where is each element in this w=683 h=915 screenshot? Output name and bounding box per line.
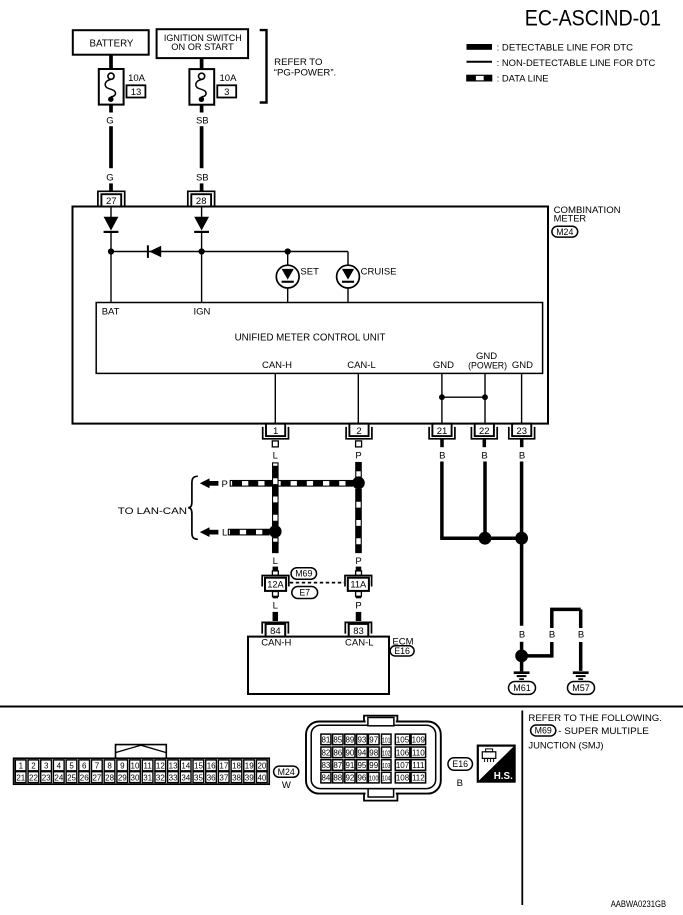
svg-text:17: 17 <box>219 762 228 771</box>
svg-text:REFER TO THE FOLLOWING.: REFER TO THE FOLLOWING. <box>528 713 662 724</box>
svg-text:9: 9 <box>120 762 125 771</box>
connector face M24 40-pin grid <box>14 745 270 785</box>
svg-text:16: 16 <box>207 762 216 771</box>
svg-text:84: 84 <box>270 626 281 637</box>
svg-text:M61: M61 <box>513 683 531 693</box>
wire B down to ground M61 <box>519 538 525 650</box>
TO LAN-CAN brace and label <box>118 476 198 539</box>
svg-text:CAN-L: CAN-L <box>345 637 374 648</box>
svg-text:89: 89 <box>345 736 354 745</box>
svg-text:12A: 12A <box>267 580 284 590</box>
svg-text:85: 85 <box>333 736 342 745</box>
wire GND POWER inside meter <box>484 374 486 424</box>
ECM label E16 <box>390 637 414 656</box>
svg-text:33: 33 <box>169 773 178 782</box>
separator line <box>0 706 683 708</box>
svg-text:82: 82 <box>321 748 330 757</box>
svg-text:M24: M24 <box>278 767 295 777</box>
svg-text:(POWER): (POWER) <box>468 361 507 372</box>
svg-text:M69: M69 <box>535 726 552 736</box>
svg-text:GND: GND <box>512 360 533 371</box>
svg-text:B: B <box>519 450 525 461</box>
svg-text:SB: SB <box>196 116 209 127</box>
svg-text:110: 110 <box>412 748 425 757</box>
data line L vertical from pin 1 <box>272 441 278 526</box>
junction dot above M61 <box>515 650 528 663</box>
svg-text:BAT: BAT <box>102 307 120 318</box>
svg-text:P: P <box>355 556 361 567</box>
svg-text:104: 104 <box>382 774 390 783</box>
svg-text:1: 1 <box>273 426 278 437</box>
wire B from pin 22 <box>481 439 487 538</box>
svg-text:95: 95 <box>357 761 366 770</box>
ECM connector pin 84 <box>262 622 288 637</box>
svg-text:7: 7 <box>95 762 100 771</box>
connector face label E16 B <box>448 758 473 789</box>
wire B from pin 21 <box>439 439 485 538</box>
junction dot BAT column <box>108 248 114 254</box>
legend data line <box>467 74 549 85</box>
svg-text:13: 13 <box>169 762 178 771</box>
junction dot B at 22 <box>479 532 492 545</box>
svg-text:ON OR START: ON OR START <box>171 42 234 52</box>
svg-text:87: 87 <box>333 761 342 770</box>
svg-text:4: 4 <box>57 762 62 771</box>
svg-text:M24: M24 <box>556 227 573 237</box>
connector face E16 rounded shell <box>306 716 441 801</box>
svg-text:3: 3 <box>224 87 229 98</box>
svg-text:“PG-POWER”.: “PG-POWER”. <box>274 67 336 78</box>
svg-text:TO LAN-CAN: TO LAN-CAN <box>118 506 187 517</box>
svg-text:- SUPER MULTIPLE: - SUPER MULTIPLE <box>558 726 649 737</box>
svg-text:21: 21 <box>16 773 25 782</box>
svg-text:L: L <box>273 556 278 567</box>
svg-text:107: 107 <box>396 761 410 770</box>
svg-text:2: 2 <box>31 762 36 771</box>
svg-text:13: 13 <box>131 87 142 98</box>
svg-text:10A: 10A <box>220 73 238 84</box>
svg-text:REFER TO: REFER TO <box>274 57 322 68</box>
svg-text:22: 22 <box>479 426 490 437</box>
svg-text:28: 28 <box>196 196 207 207</box>
junction dot B at 23 <box>515 532 528 545</box>
unified meter control unit box <box>96 303 542 374</box>
fuse 10A 13 <box>99 69 146 105</box>
svg-text:11: 11 <box>144 762 153 771</box>
svg-text:METER: METER <box>554 213 587 223</box>
svg-text:GND: GND <box>433 360 454 371</box>
wire G fuse to meter <box>106 105 113 192</box>
refer to PG-POWER bracket <box>260 30 336 102</box>
svg-text:81: 81 <box>321 736 330 745</box>
gnd link wire <box>442 396 485 398</box>
connector pin 22 <box>471 424 497 439</box>
svg-text:18: 18 <box>232 762 241 771</box>
svg-text:1: 1 <box>19 762 24 771</box>
legend detectable line <box>467 42 634 53</box>
svg-text:L: L <box>273 450 278 461</box>
svg-text:W: W <box>282 780 291 791</box>
battery box <box>73 30 149 55</box>
junction dot SET column <box>285 248 291 254</box>
svg-text:29: 29 <box>118 773 127 782</box>
svg-text:P: P <box>222 479 228 490</box>
ignition switch box <box>157 29 249 58</box>
svg-text:: DETECTABLE LINE FOR DTC: : DETECTABLE LINE FOR DTC <box>497 42 634 53</box>
svg-text:11A: 11A <box>350 580 367 590</box>
svg-text:38: 38 <box>232 773 241 782</box>
svg-text:M57: M57 <box>572 683 590 693</box>
svg-text:8: 8 <box>107 762 112 771</box>
svg-text:5: 5 <box>69 762 74 771</box>
svg-text:30: 30 <box>131 773 140 782</box>
wire CAN-H inside meter <box>274 374 276 424</box>
connector pin 2 <box>346 424 372 439</box>
data line P to SMJ 11A <box>355 489 361 575</box>
wire battery to fuse <box>109 55 113 70</box>
svg-text:35: 35 <box>194 773 203 782</box>
svg-text:27: 27 <box>92 773 101 782</box>
arrow L to LAN-CAN <box>200 527 228 539</box>
svg-text:23: 23 <box>42 773 51 782</box>
svg-text:93: 93 <box>357 736 366 745</box>
svg-text:108: 108 <box>396 774 410 783</box>
svg-text:19: 19 <box>245 762 254 771</box>
SMJ label M69 <box>291 568 317 580</box>
svg-text:21: 21 <box>437 426 448 437</box>
connector pin 27 <box>98 191 125 207</box>
svg-text:CAN-H: CAN-H <box>261 637 291 648</box>
svg-text:CRUISE: CRUISE <box>361 267 397 278</box>
connector face E16 pin grid <box>321 734 426 783</box>
svg-text:BATTERY: BATTERY <box>90 38 134 49</box>
svg-text:32: 32 <box>156 773 165 782</box>
svg-text:83: 83 <box>353 626 364 637</box>
svg-text:E16: E16 <box>452 759 468 769</box>
svg-text:JUNCTION (SMJ): JUNCTION (SMJ) <box>528 740 603 751</box>
diode D1 below pin 27 <box>104 207 119 303</box>
svg-text:36: 36 <box>207 773 216 782</box>
arrow P to LAN-CAN <box>200 478 228 490</box>
svg-text:: DATA LINE: : DATA LINE <box>497 74 549 85</box>
junction dot IGN column <box>199 248 205 254</box>
connector pin 23 <box>509 424 535 439</box>
wire B from pin 23 <box>519 439 525 538</box>
svg-text:B: B <box>578 630 584 641</box>
svg-text:G: G <box>106 172 113 183</box>
ground M57 <box>568 673 595 695</box>
svg-text:UNIFIED METER CONTROL UNIT: UNIFIED METER CONTROL UNIT <box>235 333 386 344</box>
svg-text:112: 112 <box>412 774 425 783</box>
svg-text:CAN-L: CAN-L <box>347 360 376 371</box>
svg-text:97: 97 <box>369 736 378 745</box>
svg-text:40: 40 <box>257 773 266 782</box>
wire GND inside meter <box>441 374 443 424</box>
svg-text:G: G <box>106 116 113 127</box>
svg-text:10A: 10A <box>128 73 146 84</box>
svg-text:H.S.: H.S. <box>494 771 513 782</box>
indicator lamp SET <box>276 252 319 303</box>
SMJ connector 12A <box>262 576 289 591</box>
combination meter label M24 <box>552 205 621 237</box>
svg-text:IGN: IGN <box>194 307 211 318</box>
svg-text:2: 2 <box>356 426 361 437</box>
svg-text:12: 12 <box>156 762 165 771</box>
svg-text:98: 98 <box>369 748 378 757</box>
svg-text:P: P <box>355 600 361 611</box>
indicator lamp CRUISE <box>337 252 397 303</box>
svg-text:E16: E16 <box>394 646 410 656</box>
diode D2 below pin 28 <box>194 207 209 303</box>
SMJ connector 11A <box>345 576 372 591</box>
SMJ label E7 <box>292 587 318 599</box>
junction dot L data line <box>269 525 282 538</box>
SMJ dashed link <box>290 582 344 584</box>
fuse 10A 3 <box>189 69 237 105</box>
svg-text:6: 6 <box>82 762 87 771</box>
svg-text:B: B <box>457 778 463 789</box>
svg-text:14: 14 <box>181 762 190 771</box>
wire L SMJ to ECM pin 84 <box>273 592 279 622</box>
separator vertical line <box>521 711 523 906</box>
svg-text:P: P <box>355 450 361 461</box>
svg-text:88: 88 <box>333 774 342 783</box>
svg-text:106: 106 <box>396 748 410 757</box>
legend non-detectable line <box>467 58 656 69</box>
diode D3 left-pointing <box>147 245 161 258</box>
svg-text:CAN-H: CAN-H <box>262 360 292 371</box>
svg-text:25: 25 <box>67 773 76 782</box>
svg-text:103: 103 <box>382 761 390 770</box>
svg-text:20: 20 <box>257 762 266 771</box>
svg-text:B: B <box>519 630 525 641</box>
wire GND right inside meter <box>521 374 523 424</box>
svg-text:27: 27 <box>106 196 117 207</box>
svg-text:AABWA0231GB: AABWA0231GB <box>611 899 666 909</box>
svg-text:SET: SET <box>300 267 319 278</box>
data line L horizontal to LAN-CAN <box>228 529 269 535</box>
svg-text:102: 102 <box>382 748 390 757</box>
connector pin 28 <box>188 191 215 207</box>
svg-text:E7: E7 <box>299 588 310 598</box>
data line L to SMJ 12A <box>272 538 278 576</box>
internal bus wire <box>111 251 348 253</box>
svg-text:SB: SB <box>196 172 209 183</box>
svg-text:EC-ASCIND-01: EC-ASCIND-01 <box>525 5 661 30</box>
ECM box <box>248 637 389 694</box>
svg-text:28: 28 <box>105 773 114 782</box>
wire SB fuse to meter <box>196 105 209 192</box>
wire jog to M57 branch <box>528 609 585 671</box>
svg-text:B: B <box>549 630 555 641</box>
svg-text:B: B <box>439 450 445 461</box>
svg-text:15: 15 <box>194 762 203 771</box>
svg-text:L: L <box>273 600 278 611</box>
svg-text:34: 34 <box>181 773 190 782</box>
junction dot gnd link left <box>439 394 445 400</box>
svg-text:26: 26 <box>80 773 89 782</box>
svg-text:111: 111 <box>412 761 425 770</box>
svg-text:91: 91 <box>345 761 354 770</box>
svg-text:109: 109 <box>412 736 426 745</box>
svg-text:37: 37 <box>219 773 228 782</box>
svg-text:94: 94 <box>357 748 366 757</box>
svg-text:B: B <box>481 450 487 461</box>
data line P horizontal to LAN-CAN <box>230 481 352 487</box>
svg-text:23: 23 <box>516 426 527 437</box>
junction dot P data line <box>352 477 365 490</box>
svg-text:100: 100 <box>369 774 379 783</box>
data line P vertical from pin 2 <box>355 441 361 477</box>
svg-text:105: 105 <box>396 736 410 745</box>
wire CAN-L inside meter <box>357 374 359 424</box>
connector pin 1 <box>263 424 289 439</box>
svg-text:84: 84 <box>321 774 330 783</box>
svg-text:22: 22 <box>29 773 38 782</box>
svg-text:10: 10 <box>131 762 140 771</box>
H.S. icon <box>478 746 515 783</box>
connector pin 21 <box>429 424 455 439</box>
svg-text:99: 99 <box>369 761 378 770</box>
refer to following note <box>528 713 662 751</box>
wire B link between dots <box>485 536 522 540</box>
svg-text:: NON-DETECTABLE LINE FOR DTC: : NON-DETECTABLE LINE FOR DTC <box>497 58 656 69</box>
svg-text:83: 83 <box>321 761 330 770</box>
svg-text:92: 92 <box>345 774 354 783</box>
ECM connector pin 83 <box>345 622 371 637</box>
svg-text:39: 39 <box>245 773 254 782</box>
combination meter box <box>73 207 549 424</box>
wire ignition to fuse <box>200 58 204 69</box>
svg-text:90: 90 <box>345 748 354 757</box>
svg-text:3: 3 <box>44 762 49 771</box>
svg-text:101: 101 <box>382 736 390 745</box>
svg-text:96: 96 <box>357 774 366 783</box>
wire P SMJ to ECM pin 83 <box>355 592 361 622</box>
connector face label M24 W <box>274 766 299 791</box>
svg-text:M69: M69 <box>295 569 312 579</box>
ground M61 <box>509 662 536 694</box>
svg-text:24: 24 <box>54 773 63 782</box>
svg-text:L: L <box>222 528 227 539</box>
junction dot gnd link right <box>482 394 488 400</box>
svg-text:31: 31 <box>143 773 152 782</box>
svg-text:86: 86 <box>333 748 342 757</box>
